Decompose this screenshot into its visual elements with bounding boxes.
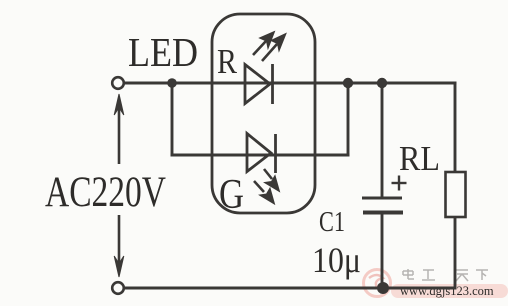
LED R emission arrow 1 [253,32,275,56]
capacitor C1 plates [362,198,403,213]
wire bottom rail [125,287,455,290]
wire top rail [124,82,455,85]
wire right edge bottom (from RL) [454,217,457,288]
AC source arrow up [114,94,124,164]
node junction dot cap top [377,78,387,88]
svg-text:AC220V: AC220V [45,169,166,216]
terminal top (open circle) [112,77,124,89]
wire G branch return vertical [347,83,350,155]
node junction dot mid [343,78,353,88]
wire capacitor top lead [381,83,384,197]
watermark pink band [391,284,508,298]
terminal bottom (open circle) [112,282,124,294]
AC source arrow down [114,215,124,277]
wire G branch horizontal [172,154,348,157]
node junction dot top-left [167,78,177,88]
LED R cathode bar [271,64,274,104]
LED R emission arrow 2 [262,34,286,62]
wire capacitor bottom lead [381,214,384,288]
watermark text dian gong tian xia [403,269,488,281]
LED G emission arrow 1 [264,169,280,192]
LED G emission arrow 2 [254,181,275,204]
svg-text:RL: RL [399,139,440,178]
wire right edge top (to RL) [454,83,457,172]
svg-text:G: G [219,172,244,218]
svg-text:www.dgjs123.com: www.dgjs123.com [400,284,494,298]
LED R diode triangle [245,65,270,104]
LED module rounded box [212,14,315,213]
capacitor polarity plus [392,176,407,191]
svg-text:LED: LED [128,29,198,75]
LED G cathode bar [274,134,277,173]
svg-text:10μ: 10μ [312,240,361,280]
resistor RL body [446,172,466,217]
svg-text:R: R [217,42,238,81]
watermark logo circle [364,270,391,297]
svg-text:C1: C1 [319,206,345,238]
LED G diode triangle [247,134,271,172]
wire node A vertical (top rail down to G branch) [171,83,174,155]
node junction dot cap bottom [377,282,389,294]
